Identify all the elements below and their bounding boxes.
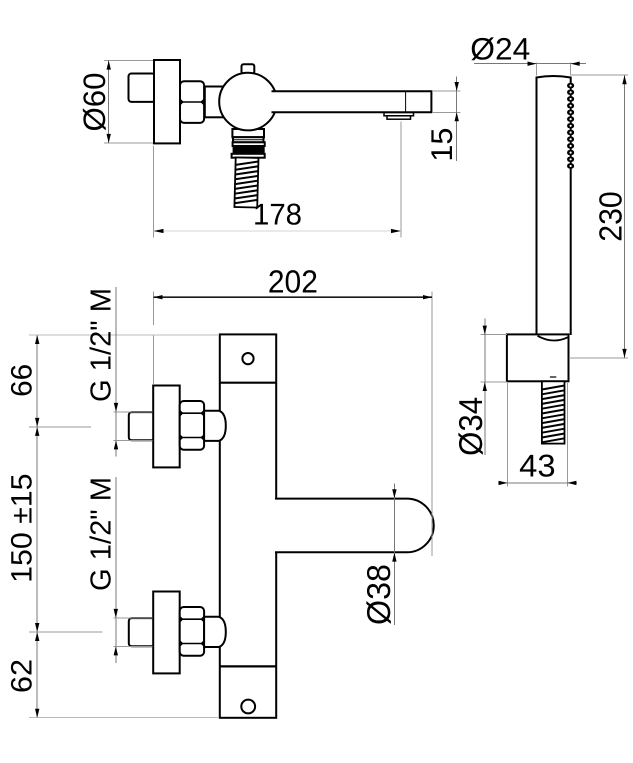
dim chain 66 / 150±15 / 62 (left of front view)	[6, 335, 219, 718]
lower hex nut (front view)	[180, 607, 204, 656]
lower wall flange disc (front view)	[153, 592, 180, 674]
svg-text:Ø38: Ø38	[360, 564, 397, 625]
dim 230 (hand shower length)	[569, 75, 629, 358]
dim G 1/2" M (lower inlet thread)	[86, 477, 153, 663]
hex nut (top view)	[180, 81, 204, 123]
svg-text:178: 178	[253, 198, 302, 231]
inlet pipe stub (top view)	[129, 74, 156, 102]
dim Ø38 (spout diameter, front view)	[360, 484, 397, 625]
flexible shower hose (threaded, top view)	[234, 157, 258, 207]
black seal band on hose coupling	[233, 146, 265, 154]
top plate screw hole	[242, 353, 253, 364]
wall bracket block for hand shower	[507, 334, 569, 381]
mixer body column (front view)	[220, 334, 276, 717]
svg-text:202: 202	[268, 263, 318, 299]
dim G 1/2" M (upper inlet thread)	[86, 287, 153, 457]
upper hex nut (front view)	[180, 401, 204, 450]
wall flange disc (top view)	[154, 60, 180, 143]
lower inlet pipe stub (front view)	[129, 618, 154, 646]
lower domed connector to body	[204, 617, 226, 647]
svg-text:150 ±15: 150 ±15	[6, 473, 39, 583]
bottom plate screw hole	[241, 700, 255, 714]
coupling lip below black band	[232, 154, 265, 158]
upper domed connector to body	[204, 411, 226, 441]
svg-text:15: 15	[426, 128, 459, 162]
spray nozzle dots on handle face	[567, 83, 574, 169]
svg-text:G 1/2" M: G 1/2" M	[86, 288, 118, 402]
svg-text:66: 66	[6, 364, 39, 397]
svg-text:62: 62	[6, 659, 39, 693]
round valve body (top view)	[219, 73, 277, 131]
svg-text:Ø34: Ø34	[452, 397, 489, 456]
dim 15 (spout height, top view)	[426, 76, 461, 161]
dim Ø24 (hand shower diameter)	[470, 32, 586, 76]
dim Ø60 (flange diameter, top view)	[77, 60, 153, 143]
hand shower stick handle	[537, 76, 571, 335]
dim Ø34 (bracket height)	[452, 318, 507, 456]
bracket cradle seat arc	[538, 336, 569, 341]
svg-text:Ø60: Ø60	[77, 73, 112, 132]
top mounting plate divider line	[220, 382, 276, 384]
svg-text:43: 43	[519, 448, 556, 484]
conical hose nut mark under bracket	[550, 376, 556, 378]
flexible hose thread below bracket	[542, 381, 565, 443]
upper wall flange disc (front view)	[153, 386, 180, 468]
cartridge cap stub on top of valve body	[242, 64, 255, 74]
bottom mounting plate divider line	[220, 665, 276, 667]
svg-text:230: 230	[593, 191, 629, 242]
hose coupling rings	[233, 137, 265, 146]
tub spout (front view, rounded end)	[275, 499, 434, 553]
upper inlet pipe stub (front view)	[129, 412, 154, 440]
connector sleeve between nut and valve body	[205, 87, 225, 118]
dim 178 (wall to spout outlet, top view)	[154, 122, 402, 238]
hose neck below valve body	[232, 129, 264, 137]
aerator under spout tip	[384, 113, 414, 120]
svg-text:Ø24: Ø24	[470, 32, 530, 67]
svg-text:G 1/2" M: G 1/2" M	[86, 477, 118, 591]
dim 43 (bracket width)	[498, 383, 577, 487]
spout (top view)	[272, 91, 432, 112]
dim 202 (wall to spout end, front view)	[154, 263, 433, 556]
